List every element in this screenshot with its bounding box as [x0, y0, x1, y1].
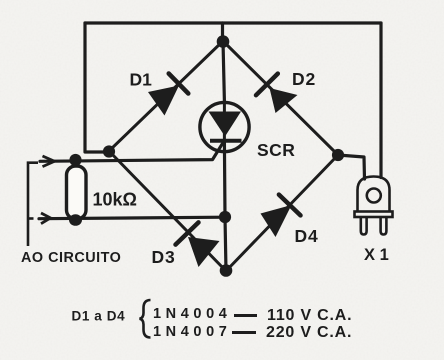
diode D3 — [109, 151, 226, 271]
junction K cathode-return — [219, 211, 231, 223]
wire node R to plug — [338, 155, 365, 179]
junction node R — [332, 149, 344, 161]
wire SCR anode from node T — [223, 41, 224, 101]
input terminal bracket — [28, 163, 38, 246]
wire left vertical to node L — [85, 23, 109, 152]
junction resistor bottom — [69, 214, 82, 226]
svg-text:D4: D4 — [295, 226, 319, 246]
arrow input top — [43, 156, 55, 167]
svg-text:1N4004: 1N4004 — [153, 306, 231, 322]
junction node T — [217, 35, 230, 48]
junction node B — [220, 264, 233, 277]
svg-text:D1: D1 — [130, 70, 153, 90]
svg-text:1N4007: 1N4007 — [153, 324, 231, 340]
note dash 1 — [234, 314, 257, 317]
arrow input bottom — [41, 213, 51, 224]
note brace — [140, 300, 151, 338]
svg-text:SCR: SCR — [257, 140, 295, 160]
svg-text:X 1: X 1 — [364, 246, 389, 264]
wire gate input (to SCR gate) — [40, 144, 222, 162]
diode D4 — [226, 155, 338, 271]
plug X1 — [355, 177, 393, 235]
diode D1 — [109, 41, 223, 151]
wire top bus — [85, 21, 381, 24]
diode D2 — [223, 41, 338, 155]
svg-text:110 V C.A.: 110 V C.A. — [267, 307, 352, 324]
junction resistor top — [69, 154, 81, 166]
svg-text:10kΩ: 10kΩ — [93, 190, 137, 210]
svg-text:D2: D2 — [292, 69, 316, 89]
svg-text:D3: D3 — [152, 247, 176, 267]
wire right vertical to plug — [379, 23, 382, 178]
svg-text:D1 a D4: D1 a D4 — [72, 309, 126, 324]
resistor R1 10k — [67, 166, 87, 219]
wire SCR cathode to junction K and node B — [224, 141, 226, 271]
wire lower input to junction K — [39, 217, 225, 219]
thyristor SCR — [200, 101, 249, 152]
note dash 2 — [232, 331, 256, 334]
wire stub top bus to node T — [221, 23, 224, 41]
junction node L — [103, 145, 115, 157]
svg-text:AO CIRCUITO: AO CIRCUITO — [21, 250, 121, 266]
svg-text:220 V C.A.: 220 V C.A. — [266, 324, 352, 341]
